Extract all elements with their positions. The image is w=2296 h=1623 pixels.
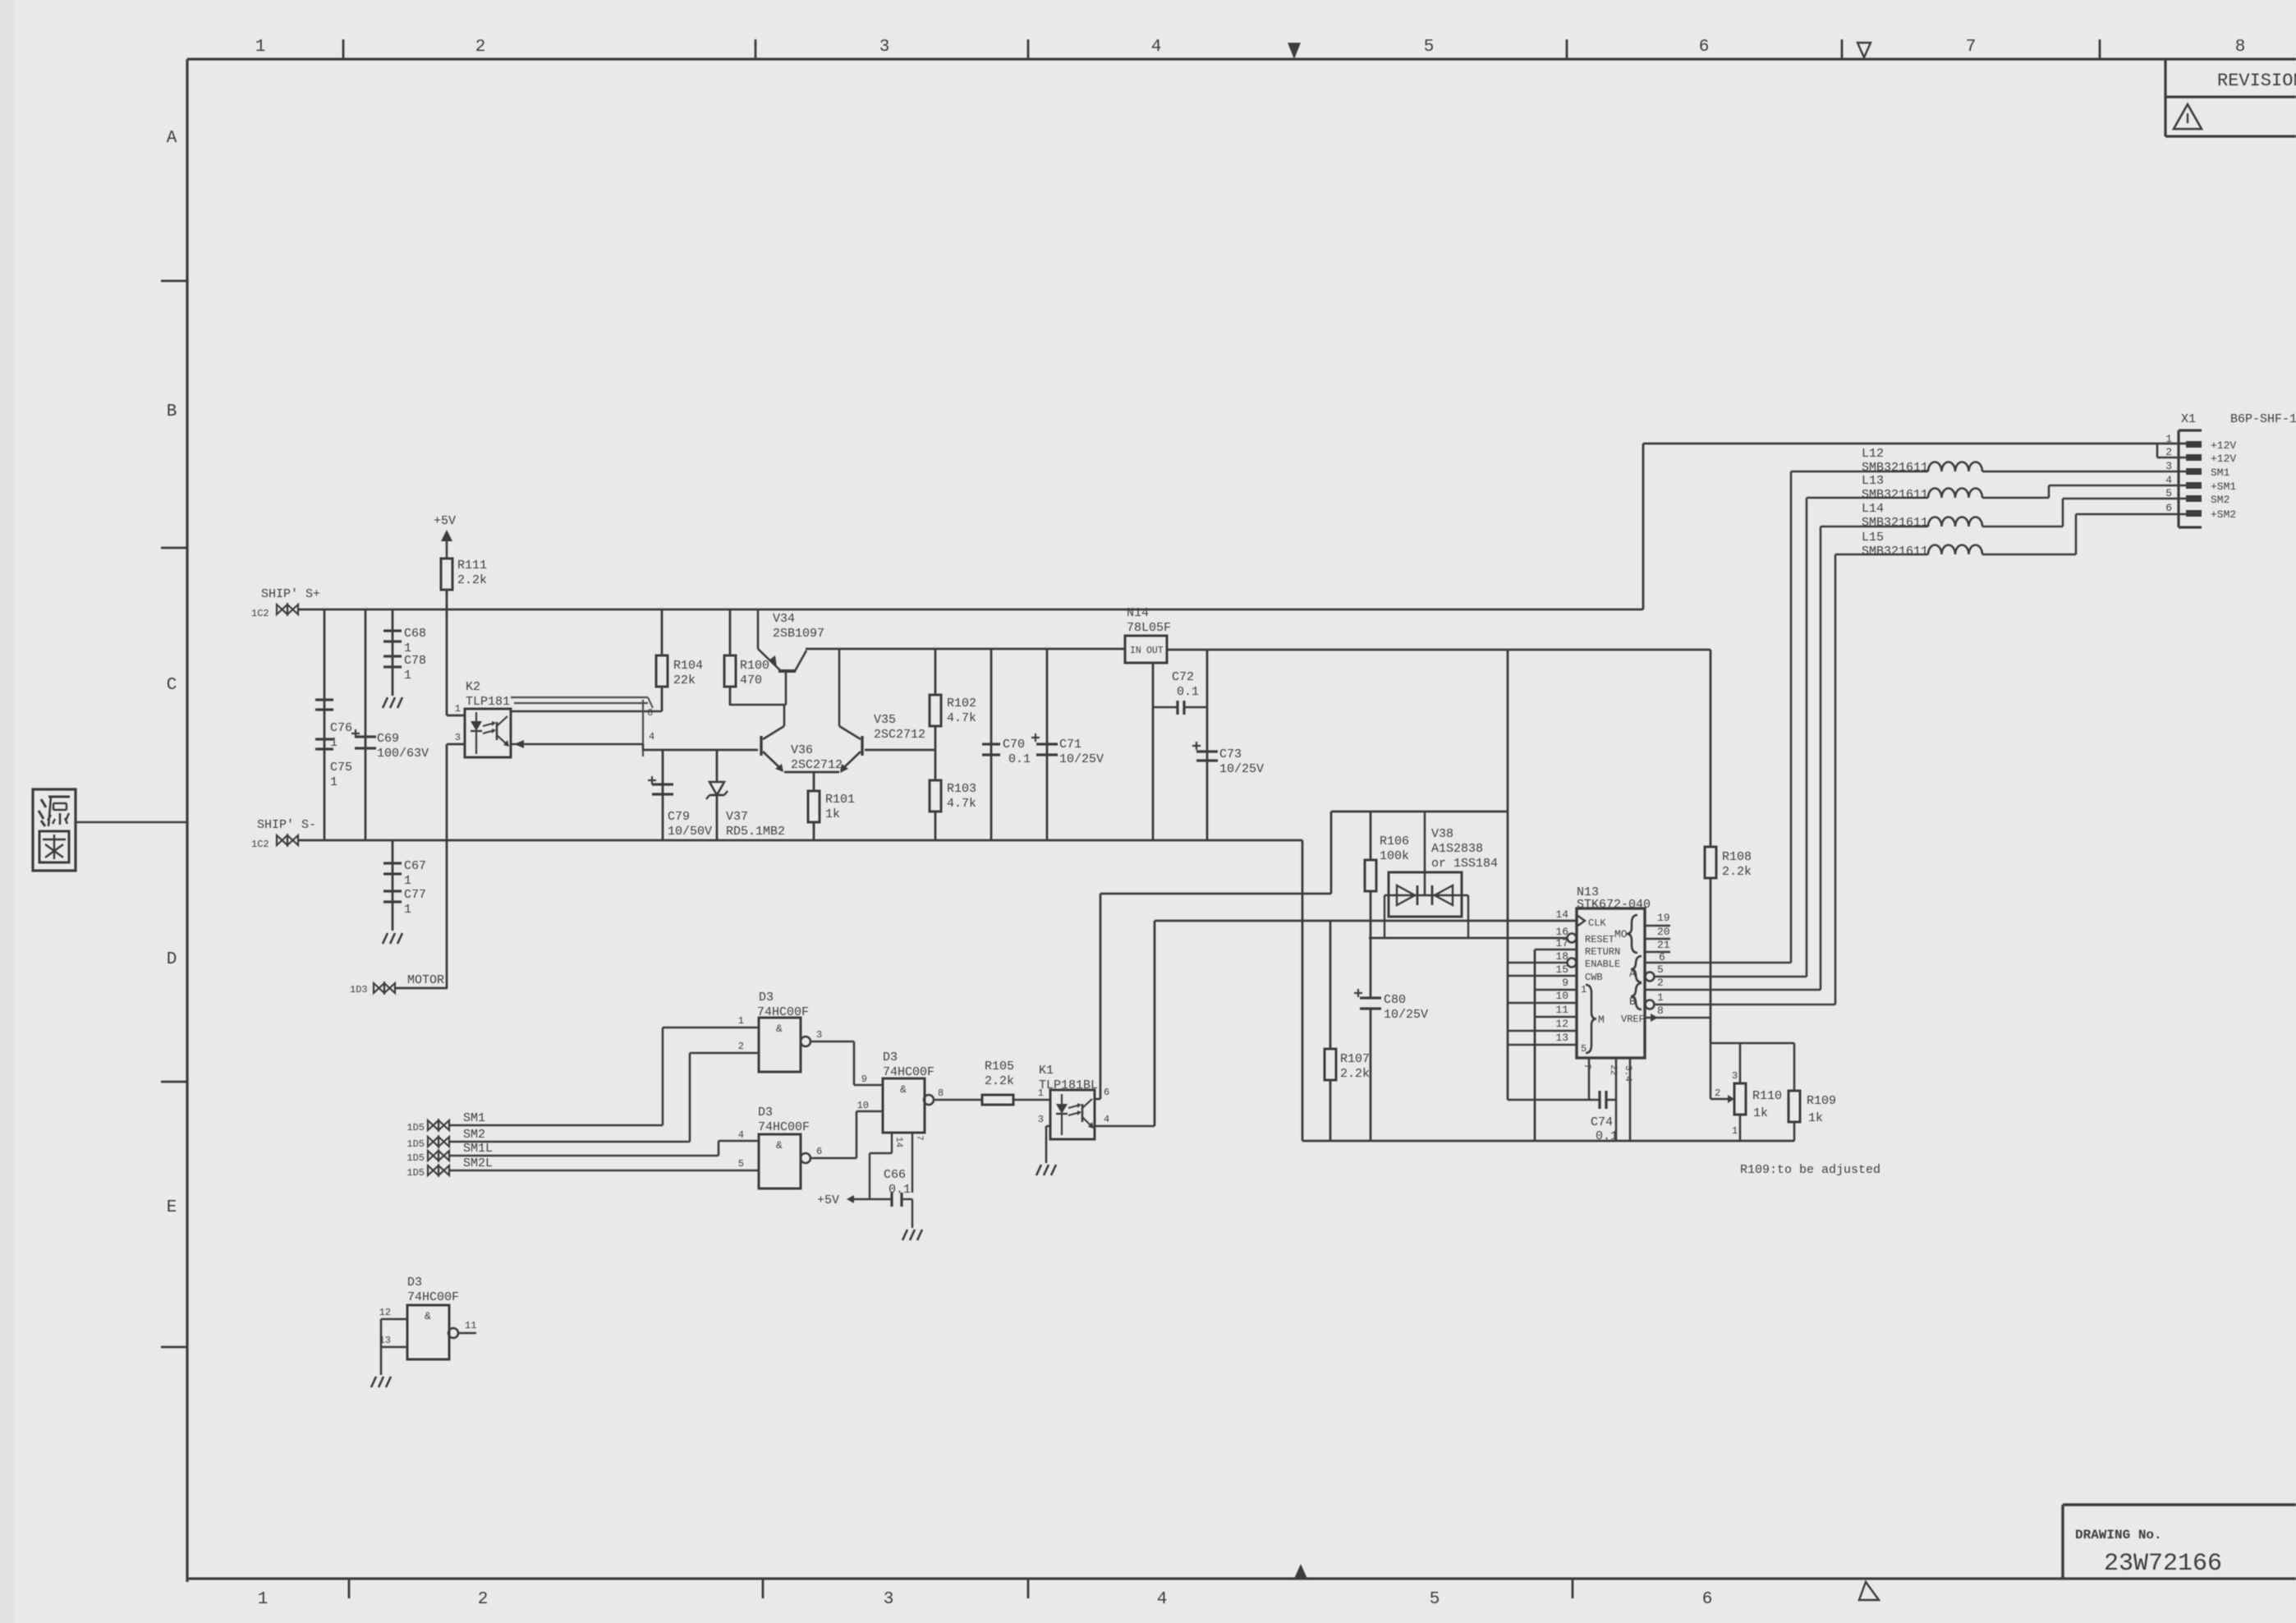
connector symbol SM2 xyxy=(428,1137,439,1147)
V38 common cathode riser xyxy=(1424,811,1426,895)
svg-text:1: 1 xyxy=(1732,1125,1738,1137)
svg-text:N14: N14 xyxy=(1127,606,1149,620)
K2 internal LED xyxy=(475,712,477,721)
connector symbol SHIP'S+ xyxy=(277,605,287,614)
svg-text:X1: X1 xyxy=(2181,412,2196,426)
svg-text:1: 1 xyxy=(2165,433,2172,445)
svg-text:5: 5 xyxy=(2165,487,2172,499)
svg-text:D: D xyxy=(167,950,177,969)
top open triangle marker xyxy=(1857,43,1871,57)
wire pin13 xyxy=(381,1346,407,1349)
svg-text:2SC2712: 2SC2712 xyxy=(791,758,843,772)
svg-text:V37: V37 xyxy=(726,810,748,824)
svg-text:2SC2712: 2SC2712 xyxy=(874,728,925,742)
svg-text:C77: C77 xyxy=(404,888,426,902)
svg-text:4.7k: 4.7k xyxy=(947,711,976,725)
svg-text:V34: V34 xyxy=(773,612,795,626)
wire R108 to VREF node xyxy=(1710,878,1712,1043)
svg-text:6: 6 xyxy=(1104,1087,1109,1098)
R100 body xyxy=(724,655,736,687)
wire to gate3 pin10 xyxy=(856,1110,883,1113)
svg-text:1k: 1k xyxy=(1753,1106,1768,1120)
svg-text:OUT: OUT xyxy=(1146,646,1164,656)
wire C79 branch xyxy=(662,750,664,840)
wire K1 collector riser xyxy=(1100,894,1102,1099)
svg-text:1: 1 xyxy=(330,775,338,789)
svg-text:9: 9 xyxy=(861,1074,867,1085)
svg-text:1: 1 xyxy=(258,1590,269,1609)
wire pin9 xyxy=(1535,989,1577,991)
regulator N14 78L05F box xyxy=(1125,636,1167,663)
ghost vertical at K2 output xyxy=(642,700,644,756)
svg-text:REVISION: REVISION xyxy=(2217,71,2296,91)
svg-text:4: 4 xyxy=(1151,38,1162,57)
svg-text:+SM2: +SM2 xyxy=(2211,508,2236,521)
wire +5V to C66 xyxy=(854,1198,892,1200)
wire to C74 xyxy=(1508,1099,1600,1101)
wire V34 base down xyxy=(785,671,788,705)
svg-text:12: 12 xyxy=(1555,1018,1568,1030)
gate3 output bubble xyxy=(924,1095,934,1105)
V35 emitter arrow xyxy=(840,764,848,773)
wire K1 pin3 to ground xyxy=(1045,1126,1048,1163)
wire SM1 to pin1 xyxy=(663,1027,759,1029)
svg-text:0.1: 0.1 xyxy=(1177,685,1199,699)
capacitor C74 xyxy=(1598,1091,1600,1109)
wire C73 branch xyxy=(1206,650,1209,840)
wire V36 collector xyxy=(783,705,786,726)
M brace xyxy=(1586,985,1596,1053)
inductor L13 SMB321611 xyxy=(1928,489,1982,499)
wire gate4 out stub xyxy=(458,1332,476,1335)
resistor R101 xyxy=(813,772,815,791)
resistor R106 100k xyxy=(1365,860,1376,891)
svg-text:14: 14 xyxy=(893,1137,903,1148)
svg-text:2: 2 xyxy=(1657,977,1664,989)
wire C68/C78 branch xyxy=(392,609,394,696)
top tick near 7 xyxy=(1841,39,1844,59)
resistor R105 (horizontal) xyxy=(982,1095,1013,1105)
wire R107 top xyxy=(1329,921,1332,1049)
wire R105 to K1 pin1 xyxy=(1013,1099,1050,1101)
svg-text:3: 3 xyxy=(2165,460,2172,472)
revision warning triangle symbol xyxy=(2174,104,2202,129)
wire RETURN xyxy=(1535,949,1577,951)
X1 pin 1 pad xyxy=(2186,441,2202,448)
wire SHIP'S+ rail xyxy=(298,609,1643,611)
svg-text:C: C xyxy=(167,676,177,695)
svg-text:78L05F: 78L05F xyxy=(1127,621,1171,635)
svg-text:2: 2 xyxy=(738,1041,744,1052)
connector symbol SM1 xyxy=(428,1120,439,1130)
svg-text:100/63V: 100/63V xyxy=(377,747,429,761)
wire secondary ground rail xyxy=(1302,1140,1794,1143)
inductor L14 SMB321611 xyxy=(1928,517,1982,527)
bottom open triangle marker xyxy=(1859,1582,1879,1600)
wire emitter bus xyxy=(784,771,839,774)
svg-text:3: 3 xyxy=(1732,1070,1738,1082)
svg-text:1D5: 1D5 xyxy=(406,1138,425,1150)
svg-text:100k: 100k xyxy=(1380,849,1409,863)
wire down to R110 wiper xyxy=(1710,1043,1712,1099)
wire SHIP'S- rail xyxy=(298,839,1302,842)
svg-text:SMB321611: SMB321611 xyxy=(1862,516,1928,530)
svg-text:R102: R102 xyxy=(947,697,976,710)
svg-text:6: 6 xyxy=(2165,502,2172,514)
svg-text:SM2: SM2 xyxy=(463,1128,485,1142)
potentiometer R110 1k xyxy=(1739,1043,1742,1083)
wire to L12 xyxy=(1791,471,1928,473)
svg-text:&: & xyxy=(900,1083,907,1096)
svg-text:R100: R100 xyxy=(740,659,769,673)
wire C69 branch xyxy=(365,609,367,840)
wire SM2 to pin2 xyxy=(690,1052,759,1055)
resistor R104 xyxy=(661,609,664,655)
wire C67/C77 branch xyxy=(392,840,394,931)
bottom border ticks xyxy=(348,1579,351,1598)
svg-text:1D5: 1D5 xyxy=(406,1122,425,1133)
svg-text:3: 3 xyxy=(879,38,890,57)
svg-text:C67: C67 xyxy=(404,859,426,873)
wire inputs to ground xyxy=(380,1319,383,1375)
svg-text:3: 3 xyxy=(884,1590,894,1609)
wire VREF pin8 xyxy=(1645,1017,1711,1019)
wire pin7 down xyxy=(1588,1058,1591,1100)
svg-text:74HC00F: 74HC00F xyxy=(407,1290,459,1304)
svg-text:1k: 1k xyxy=(1808,1111,1823,1125)
svg-text:V38: V38 xyxy=(1431,827,1453,841)
wire L14 riser from pin2 xyxy=(1820,526,1822,990)
svg-text:20: 20 xyxy=(1657,926,1670,938)
svg-text:R109: R109 xyxy=(1807,1094,1836,1108)
svg-text:SMB321611: SMB321611 xyxy=(1862,545,1928,559)
connector symbol SHIP'S- xyxy=(277,835,287,845)
top filled triangle marker xyxy=(1288,43,1301,59)
svg-text:B6P-SHF-1A: B6P-SHF-1A xyxy=(2230,412,2296,426)
svg-text:11: 11 xyxy=(1555,1004,1568,1016)
svg-text:10/25V: 10/25V xyxy=(1219,762,1264,776)
resistor R111 xyxy=(441,559,452,590)
svg-text:3: 3 xyxy=(816,1029,822,1041)
svg-text:D3: D3 xyxy=(759,991,774,1005)
inductor L15 SMB321611 xyxy=(1928,545,1982,555)
wire +5V down to R108 xyxy=(1710,650,1712,847)
wire CLK net xyxy=(1155,920,1576,922)
svg-text:1: 1 xyxy=(738,1015,744,1027)
svg-text:6: 6 xyxy=(1659,951,1665,963)
V38 right anode drop xyxy=(1467,895,1469,938)
svg-text:13: 13 xyxy=(1555,1032,1568,1044)
svg-text:10: 10 xyxy=(1555,990,1568,1002)
svg-text:TLP181: TLP181 xyxy=(466,695,510,709)
R109 body xyxy=(1789,1091,1800,1122)
capacitor C77 xyxy=(383,890,402,892)
wire SM2L to pin5 xyxy=(448,1170,759,1172)
svg-text:C69: C69 xyxy=(377,732,399,746)
CLK input wedge xyxy=(1577,915,1585,926)
gate1 output bubble xyxy=(801,1037,810,1046)
bottom filled triangle marker xyxy=(1294,1564,1307,1579)
K1 internal LED xyxy=(1061,1094,1063,1104)
svg-text:8: 8 xyxy=(2235,38,2246,57)
K2 internal coupling arrows xyxy=(483,724,492,726)
svg-text:4.7k: 4.7k xyxy=(947,797,976,811)
wire pin19 stub xyxy=(1645,925,1670,927)
wire pin20 stub xyxy=(1645,938,1670,940)
svg-text:&: & xyxy=(776,1023,783,1035)
K1 internal phototransistor xyxy=(1081,1104,1084,1122)
svg-text:3.4: 3.4 xyxy=(1623,1065,1632,1082)
X1 pin 5 pad xyxy=(2186,495,2202,502)
V38 right diode xyxy=(1435,885,1453,905)
svg-text:B: B xyxy=(167,402,177,421)
wire to L15 xyxy=(1835,554,1928,556)
svg-text:R111: R111 xyxy=(457,559,487,572)
svg-text:M: M xyxy=(1598,1014,1605,1026)
capacitor C75 xyxy=(315,738,333,740)
V36 emitter arrow xyxy=(775,764,783,772)
svg-text:21: 21 xyxy=(1657,939,1670,951)
capacitor C76 xyxy=(315,698,333,701)
V38 left anode drop xyxy=(1384,895,1385,938)
svg-text:+12V: +12V xyxy=(2211,439,2236,452)
resistor R107 2.2k xyxy=(1325,1049,1336,1080)
NAND gate D3a xyxy=(759,1018,801,1072)
svg-text:4: 4 xyxy=(1104,1114,1109,1125)
svg-text:R105: R105 xyxy=(985,1060,1014,1074)
svg-text:SMB321611: SMB321611 xyxy=(1862,461,1928,475)
ENABLE bubble xyxy=(1568,959,1577,968)
left border ticks xyxy=(161,280,187,283)
pin1 bubble xyxy=(1646,1000,1655,1009)
svg-text:RETURN: RETURN xyxy=(1585,946,1620,958)
wire to L14 xyxy=(1821,526,1928,528)
R103 body xyxy=(930,780,941,811)
svg-text:22: 22 xyxy=(1608,1064,1618,1075)
wire +5V branch line xyxy=(1331,811,1508,813)
R101 body xyxy=(808,791,820,822)
wire SHIP'S- drop to ground rail xyxy=(1302,840,1304,1141)
ground below C77 xyxy=(383,933,388,944)
wire pin10 xyxy=(1508,1002,1577,1005)
svg-text:RD5.1MB2: RD5.1MB2 xyxy=(726,825,785,839)
svg-text:3: 3 xyxy=(1038,1114,1044,1125)
wire L13 right xyxy=(1982,497,2049,499)
svg-text:1D5: 1D5 xyxy=(406,1167,425,1179)
wire C70 branch xyxy=(990,649,993,840)
wire corner up xyxy=(1330,811,1333,894)
arrowhead on K2 pin4 wire xyxy=(514,740,524,748)
wire to gate3 pin9 xyxy=(854,1084,883,1087)
wire to L13 xyxy=(1807,497,1928,499)
svg-text:9: 9 xyxy=(1562,977,1568,989)
svg-text:MO: MO xyxy=(1614,928,1628,940)
R110 wiper xyxy=(1711,1098,1728,1100)
svg-text:0.1: 0.1 xyxy=(889,1183,911,1197)
R102 body xyxy=(930,695,941,726)
wire to X1 pin2 xyxy=(2157,457,2186,459)
svg-text:23W72166: 23W72166 xyxy=(2104,1550,2222,1578)
svg-text:17: 17 xyxy=(1555,937,1568,949)
svg-text:K1: K1 xyxy=(1039,1064,1054,1078)
svg-text:2.2k: 2.2k xyxy=(1722,865,1752,879)
gate3 power pins xyxy=(891,1133,893,1153)
wire C71 branch xyxy=(1046,649,1049,840)
svg-text:C75: C75 xyxy=(330,761,352,775)
svg-text:74HC00F: 74HC00F xyxy=(883,1065,934,1079)
wire gate3 out to R105 xyxy=(934,1099,982,1101)
svg-text:R109:to be adjusted: R109:to be adjusted xyxy=(1740,1163,1880,1177)
svg-text:74HC00F: 74HC00F xyxy=(758,1120,810,1134)
NAND gate D3c xyxy=(883,1078,925,1133)
ground below C78 xyxy=(383,697,388,708)
svg-text:15: 15 xyxy=(1555,963,1568,976)
stamp leader line to border xyxy=(76,821,187,824)
svg-text:14: 14 xyxy=(1555,908,1568,921)
ground below gate4 xyxy=(371,1377,376,1387)
svg-text:C70: C70 xyxy=(1003,738,1025,752)
wire L15 right xyxy=(1982,554,2076,556)
capacitor C67 xyxy=(383,862,402,864)
svg-text:10: 10 xyxy=(857,1100,869,1111)
wire K1 pin6 xyxy=(1095,1098,1100,1101)
wire pin2 output xyxy=(1645,989,1821,991)
wire L15 riser from pin1 xyxy=(1835,554,1837,1005)
wire jog xyxy=(642,744,645,750)
svg-text:R110: R110 xyxy=(1752,1089,1782,1103)
wire +12V riser xyxy=(1642,444,1645,609)
svg-text:R107: R107 xyxy=(1340,1052,1370,1066)
wire K2 pin6 to R104 xyxy=(511,710,662,713)
wire V35 base to divider xyxy=(865,749,935,752)
wire pins3,4 down xyxy=(1629,1058,1632,1141)
wire R111 to K2 pin1 xyxy=(446,590,448,715)
wire to pin4 xyxy=(719,1140,759,1143)
svg-text:CWB: CWB xyxy=(1585,972,1603,983)
wire RESET to C80 xyxy=(1370,938,1372,998)
wire SM1L xyxy=(449,1155,719,1157)
svg-text:22k: 22k xyxy=(673,674,696,687)
svg-text:+SM1: +SM1 xyxy=(2211,480,2236,493)
capacitor C78 xyxy=(383,655,402,657)
resistor R100 xyxy=(729,609,732,655)
svg-text:7: 7 xyxy=(1966,38,1977,57)
svg-text:L15: L15 xyxy=(1862,531,1884,545)
wire K1 pin4 riser to CLK xyxy=(1154,921,1156,1126)
VREF arrow xyxy=(1651,1014,1658,1022)
svg-text:1: 1 xyxy=(455,703,461,715)
svg-text:1: 1 xyxy=(1657,991,1664,1004)
svg-text:A: A xyxy=(167,129,177,148)
stamp glyph 2 xyxy=(39,831,69,862)
svg-text:L14: L14 xyxy=(1862,502,1884,516)
resistor R103 xyxy=(934,750,937,780)
svg-text:8: 8 xyxy=(1657,1005,1664,1017)
svg-text:1: 1 xyxy=(404,903,411,917)
wire R107 to ground rail xyxy=(1329,1080,1332,1141)
svg-text:18: 18 xyxy=(1555,950,1568,963)
wire L13 to X1 pin4 xyxy=(2049,485,2186,487)
resistor R109 1k xyxy=(1793,1043,1796,1091)
NAND gate D3d xyxy=(407,1305,449,1359)
svg-text:0.1: 0.1 xyxy=(1596,1129,1618,1143)
svg-text:1D3: 1D3 xyxy=(350,984,368,995)
wire K1 pin4 xyxy=(1095,1125,1155,1128)
ghost double line above K2 output xyxy=(511,697,648,698)
X1 pin 2 pad xyxy=(2186,454,2202,461)
wire Vcc jog xyxy=(870,1152,892,1154)
svg-text:2: 2 xyxy=(478,1590,489,1609)
connector symbol SM2L xyxy=(428,1166,439,1175)
wire RETURN to ground rail xyxy=(1534,949,1536,1141)
svg-text:L12: L12 xyxy=(1862,447,1884,461)
power arrow +5V xyxy=(446,534,448,559)
svg-text:16: 16 xyxy=(1555,926,1568,938)
V38 left diode xyxy=(1397,885,1415,905)
svg-text:1: 1 xyxy=(255,38,266,57)
X1 pin 4 pad xyxy=(2186,482,2202,489)
wire to ground xyxy=(912,1199,913,1228)
wire +12V to X1 pin1 xyxy=(1643,443,2186,445)
svg-text:L13: L13 xyxy=(1862,474,1884,488)
wire SM1L jog xyxy=(718,1141,720,1156)
svg-text:5: 5 xyxy=(738,1158,744,1170)
svg-text:C71: C71 xyxy=(1059,738,1081,752)
svg-text:R104: R104 xyxy=(673,659,703,673)
B brace xyxy=(1631,983,1642,1009)
wire V34 base to R100 xyxy=(730,704,786,706)
svg-text:IN: IN xyxy=(1130,646,1141,656)
wire gate2 out jog xyxy=(856,1111,858,1158)
svg-text:ENABLE: ENABLE xyxy=(1585,959,1620,970)
sheet border frame xyxy=(187,57,2296,60)
wire pin13 xyxy=(1508,1044,1577,1046)
svg-text:A1S2838: A1S2838 xyxy=(1431,842,1483,856)
wire L15 to X1 pin6 xyxy=(2076,513,2186,516)
svg-text:CLK: CLK xyxy=(1588,917,1606,929)
svg-text:4: 4 xyxy=(2165,474,2172,486)
pin5 bubble xyxy=(1646,972,1655,982)
wire gate1 out xyxy=(810,1041,854,1043)
capacitor C70 xyxy=(982,743,1000,745)
wire +5V OUT rail xyxy=(1167,649,1711,651)
capacitor C66 xyxy=(890,1193,893,1207)
wire K2 pin4 xyxy=(511,743,643,746)
svg-text:10/25V: 10/25V xyxy=(1384,1008,1428,1022)
wire C80 to ground rail xyxy=(1370,1009,1372,1141)
svg-text:R108: R108 xyxy=(1722,850,1752,864)
svg-text:DRAWING No.: DRAWING No. xyxy=(2075,1528,2162,1543)
wire L13 riser from pin5 xyxy=(1806,498,1808,977)
wire K1 collector to +5V corner xyxy=(1100,893,1331,895)
wire K2 pin3 down to MOTOR / SHIP'S- xyxy=(446,744,448,988)
capacitor C71 electrolytic xyxy=(1036,743,1058,745)
svg-text:RESET: RESET xyxy=(1585,934,1614,945)
svg-text:4: 4 xyxy=(1157,1590,1168,1609)
wire L12 riser from pin6 xyxy=(1790,471,1793,963)
A brace xyxy=(1631,956,1642,982)
wire pin7 gnd xyxy=(912,1133,913,1193)
svg-text:R106: R106 xyxy=(1380,834,1409,848)
svg-text:SM2L: SM2L xyxy=(463,1156,493,1170)
svg-text:2: 2 xyxy=(475,38,486,57)
svg-text:2: 2 xyxy=(1715,1087,1720,1099)
V38 diode axis wire xyxy=(1384,894,1468,896)
svg-text:+5V: +5V xyxy=(434,514,456,528)
wire gate1 out jog xyxy=(853,1041,856,1085)
wire SM1 xyxy=(449,1124,663,1127)
ground below K1 xyxy=(1036,1165,1041,1175)
